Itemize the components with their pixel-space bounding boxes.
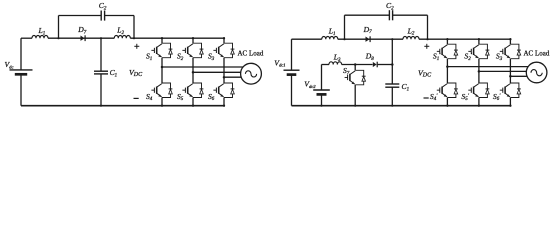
svg-text:AC Load: AC Load [524, 49, 550, 57]
svg-text:AC Load: AC Load [238, 49, 264, 57]
